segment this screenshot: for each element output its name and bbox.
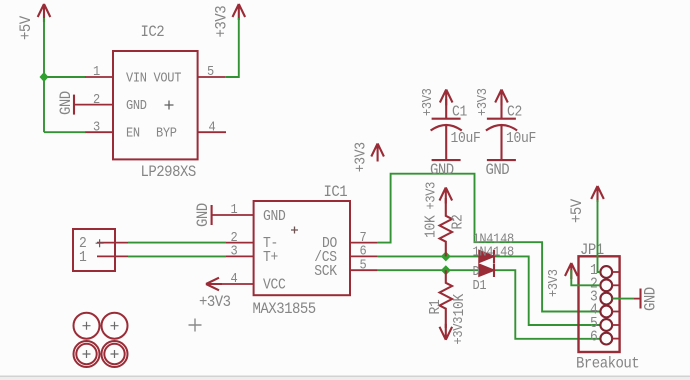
svg-text:+3V3: +3V3 bbox=[419, 88, 435, 116]
svg-text:+3V3: +3V3 bbox=[214, 6, 231, 38]
svg-text:IC2: IC2 bbox=[141, 24, 165, 41]
wire +5V to VIN bbox=[44, 76, 86, 78]
svg-text:GND: GND bbox=[430, 162, 454, 179]
IC1 origin cross bbox=[291, 227, 298, 234]
wire JP1 pin 3 to GND bbox=[613, 298, 635, 300]
svg-text:GND: GND bbox=[263, 209, 286, 225]
origin cross bbox=[189, 319, 202, 332]
X1 pin 1 bbox=[97, 255, 128, 257]
svg-text:GND: GND bbox=[195, 203, 212, 227]
X1 pin 2 bbox=[97, 242, 128, 244]
junction /CS-R2 bbox=[441, 251, 451, 261]
supply +3V3 at C1 bbox=[419, 88, 452, 116]
JP1 pin 6 bbox=[600, 333, 612, 345]
svg-text:R2: R2 bbox=[451, 214, 467, 229]
wire X1-2 to T- bbox=[128, 242, 226, 244]
supply +3V3 at C2 bbox=[474, 88, 507, 116]
JP1 pin 1 bbox=[600, 266, 612, 278]
svg-text:IC1: IC1 bbox=[324, 184, 348, 201]
supply +5V at JP1 pin 1 bbox=[569, 186, 603, 223]
svg-text:1N4148: 1N4148 bbox=[473, 244, 514, 260]
svg-text:+3V3: +3V3 bbox=[199, 294, 231, 311]
svg-text:MAX31855: MAX31855 bbox=[253, 301, 316, 318]
supply +3V3 at R2 top bbox=[423, 182, 452, 210]
wire +5V to JP1 pin 1 bbox=[598, 200, 601, 272]
svg-text:VCC: VCC bbox=[263, 278, 286, 294]
IC1 pin 6 /CS bbox=[350, 255, 378, 257]
IC1 pin 1 GND bbox=[212, 214, 254, 216]
supply +5V (top left) bbox=[18, 4, 50, 40]
ground symbol at C1 bbox=[430, 160, 461, 179]
ground symbol at JP1 pin 3 bbox=[634, 287, 660, 311]
IC1 pin 3 T+ bbox=[226, 255, 254, 257]
svg-text:10K: 10K bbox=[452, 293, 468, 316]
IC2 pin 4 BYP bbox=[198, 131, 226, 133]
svg-text:BYP: BYP bbox=[156, 125, 177, 141]
svg-text:+3V3: +3V3 bbox=[450, 317, 466, 345]
wire X1-1 to T+ bbox=[128, 255, 226, 257]
IC1 box bbox=[210, 184, 378, 318]
IC2 box bbox=[74, 24, 226, 181]
JP1 pin 5 bbox=[600, 319, 612, 331]
svg-text:10uF: 10uF bbox=[451, 131, 481, 147]
svg-text:3: 3 bbox=[93, 119, 100, 135]
svg-text:5: 5 bbox=[360, 257, 367, 273]
JP1 pin 4 bbox=[600, 306, 612, 318]
wire VOUT to +3V3 bbox=[225, 18, 239, 77]
IC2 pin 1 VIN bbox=[86, 76, 114, 78]
ground symbol at IC1 pin 1 bbox=[195, 203, 212, 227]
diode D2 (upper, on /CS line) bbox=[473, 231, 514, 263]
ground symbol at IC2 pin 2 bbox=[58, 91, 75, 115]
junction +5V/VIN bbox=[40, 72, 49, 82]
mounting hole H4 bbox=[102, 341, 128, 367]
mounting hole H3 bbox=[74, 341, 100, 367]
svg-text:+5V: +5V bbox=[18, 16, 35, 40]
svg-text:+3V3: +3V3 bbox=[545, 269, 561, 297]
IC2 origin cross bbox=[165, 101, 174, 110]
svg-text:LP298XS: LP298XS bbox=[141, 164, 197, 181]
resistor R2 bbox=[424, 198, 467, 256]
wire +5V to EN bbox=[44, 131, 86, 133]
svg-text:4: 4 bbox=[231, 271, 238, 287]
svg-text:2: 2 bbox=[93, 91, 100, 107]
svg-text:10K: 10K bbox=[424, 215, 440, 238]
JP1 pin 3 bbox=[600, 293, 612, 305]
IC2 pin 2 GND bbox=[74, 104, 113, 106]
mounting hole H1 bbox=[74, 313, 100, 339]
wire +3V3 to JP1 pin 2 bbox=[571, 270, 600, 285]
svg-text:EN: EN bbox=[126, 125, 140, 141]
svg-text:GND: GND bbox=[58, 91, 75, 115]
bottom window border bbox=[0, 375, 690, 377]
IC1 pin 7 DO bbox=[350, 242, 378, 244]
svg-text:1: 1 bbox=[93, 64, 101, 80]
svg-text:+5V: +5V bbox=[569, 199, 586, 223]
ground symbol at C2 bbox=[486, 160, 516, 179]
supply +3V3 arrow at IC1 VCC (pointing left) bbox=[199, 278, 231, 312]
IC1 pin 5 SCK bbox=[350, 269, 378, 271]
wire /CS net bbox=[378, 256, 600, 325]
svg-text:+3V3: +3V3 bbox=[423, 182, 439, 210]
svg-text:JP1: JP1 bbox=[580, 242, 604, 259]
mounting hole H2 bbox=[102, 313, 128, 339]
svg-text:+3V3: +3V3 bbox=[474, 88, 490, 116]
svg-text:1: 1 bbox=[231, 202, 239, 218]
IC2 pin 3 EN bbox=[86, 131, 114, 133]
wire DO net bbox=[378, 174, 600, 312]
svg-text:Breakout: Breakout bbox=[576, 356, 639, 373]
connector JP1 box bbox=[576, 242, 639, 372]
resistor R1 bbox=[428, 270, 468, 328]
svg-text:GND: GND bbox=[126, 97, 147, 113]
supply +3V3 (IC2 VOUT) bbox=[214, 4, 245, 38]
svg-text:VOUT: VOUT bbox=[154, 70, 182, 86]
svg-text:C1: C1 bbox=[452, 105, 467, 121]
svg-text:C2: C2 bbox=[507, 105, 522, 121]
IC2 pin 5 VOUT bbox=[198, 76, 226, 78]
wire +5V net vertical bbox=[43, 18, 45, 132]
svg-text:4: 4 bbox=[208, 119, 215, 135]
capacitor C2 bbox=[486, 99, 536, 160]
supply +3V3 at JP1 pin 2 bbox=[545, 263, 577, 297]
capacitor C1 bbox=[431, 99, 481, 160]
svg-text:1: 1 bbox=[79, 250, 87, 266]
svg-text:3: 3 bbox=[231, 243, 238, 259]
junction SCK-R1 bbox=[441, 265, 451, 275]
IC1 pin 2 T- bbox=[226, 242, 254, 244]
svg-text:D1: D1 bbox=[473, 277, 487, 293]
svg-text:5: 5 bbox=[207, 64, 214, 80]
wire SCK net bbox=[378, 270, 600, 339]
svg-text:VIN: VIN bbox=[126, 70, 147, 86]
svg-text:T+: T+ bbox=[263, 250, 278, 266]
svg-text:10uF: 10uF bbox=[506, 131, 536, 147]
thermocouple connector X1 box bbox=[73, 229, 128, 271]
IC1 pin 4 VCC bbox=[210, 283, 254, 285]
supply +3V3 floating arrow (DO area) bbox=[354, 142, 384, 172]
svg-text:R1: R1 bbox=[428, 299, 444, 314]
diode D1 (lower, on SCK line) bbox=[473, 263, 495, 293]
svg-text:GND: GND bbox=[643, 287, 660, 311]
X1 origin cross bbox=[96, 239, 104, 247]
svg-text:GND: GND bbox=[486, 162, 510, 179]
svg-text:+3V3: +3V3 bbox=[354, 142, 370, 172]
svg-text:SCK: SCK bbox=[314, 264, 337, 280]
supply +3V3 at R1 bottom (pointing down) bbox=[440, 317, 467, 345]
svg-text:6: 6 bbox=[590, 330, 598, 346]
JP1 pin 2 bbox=[600, 279, 612, 291]
